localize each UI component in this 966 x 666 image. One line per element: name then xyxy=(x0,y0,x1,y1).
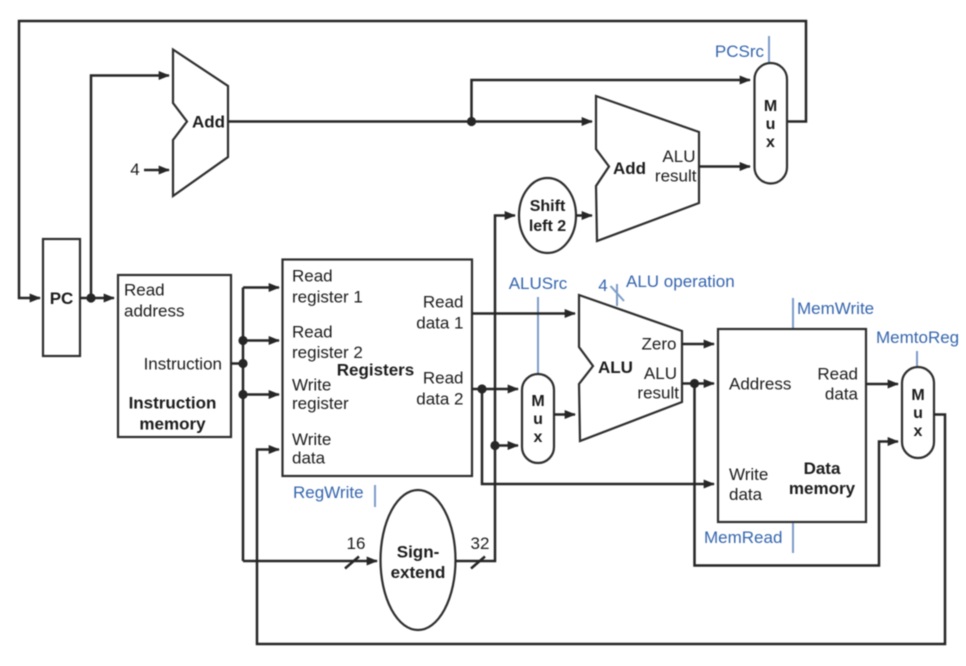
wire to Read register 2 xyxy=(243,339,279,342)
svg-text:x: x xyxy=(766,134,775,151)
svg-text:ALUSrc: ALUSrc xyxy=(509,274,568,293)
svg-text:Read: Read xyxy=(292,267,333,286)
adder Add (PC+4) xyxy=(173,50,228,197)
wire PC+4 up to top Mux input 0 xyxy=(472,80,751,122)
svg-text:register: register xyxy=(292,394,349,413)
svg-text:MemWrite: MemWrite xyxy=(797,299,874,318)
wire ALUSrc mux output to ALU xyxy=(554,413,575,416)
junction PC output xyxy=(86,293,95,302)
wire Sign-extend output up to Shift left 2 and ALU mux xyxy=(456,216,516,562)
svg-text:Instruction: Instruction xyxy=(144,355,222,374)
control ALUSrc xyxy=(509,274,568,373)
wire instruction low 16 bits to Sign-extend xyxy=(243,560,377,563)
svg-text:Address: Address xyxy=(729,375,791,394)
wire Shift left 2 to branch adder xyxy=(576,214,592,217)
svg-text:ALU operation: ALU operation xyxy=(626,272,735,291)
svg-text:Read: Read xyxy=(423,293,464,312)
svg-text:Read: Read xyxy=(292,323,333,342)
svg-text:data: data xyxy=(292,449,326,468)
wire Read data to MemtoReg mux xyxy=(866,383,898,386)
svg-text:4: 4 xyxy=(598,276,607,295)
svg-text:Add: Add xyxy=(613,159,646,178)
wire Read data 2 to ALUSrc mux xyxy=(472,388,518,391)
control MemWrite xyxy=(793,298,874,328)
svg-text:u: u xyxy=(913,405,923,422)
svg-text:Zero: Zero xyxy=(642,335,677,354)
svg-text:16: 16 xyxy=(347,534,366,553)
svg-text:Read: Read xyxy=(817,365,858,384)
svg-text:RegWrite: RegWrite xyxy=(293,483,364,502)
svg-text:extend: extend xyxy=(391,563,446,582)
svg-text:M: M xyxy=(911,387,924,404)
svg-text:u: u xyxy=(533,411,543,428)
svg-text:data: data xyxy=(729,485,763,504)
wire PC output to instruction memory xyxy=(80,297,114,300)
wire PC+4 to branch adder xyxy=(228,120,592,123)
svg-text:ALU: ALU xyxy=(598,358,633,377)
wire Zero output xyxy=(682,343,714,346)
svg-text:left 2: left 2 xyxy=(529,218,566,235)
svg-text:Write: Write xyxy=(729,465,768,484)
slash 32-bit width xyxy=(471,557,485,569)
svg-text:MemRead: MemRead xyxy=(704,528,782,547)
svg-text:Instruction: Instruction xyxy=(129,394,217,413)
svg-text:address: address xyxy=(124,302,184,321)
wire ALU result bypass down and around to MemtoReg mux xyxy=(695,384,899,566)
wire MemtoReg mux output around to Registers write data xyxy=(257,415,945,645)
wire to Write register xyxy=(243,393,279,396)
svg-text:Write: Write xyxy=(292,376,331,395)
junction ALU result xyxy=(690,379,699,388)
svg-text:Shift: Shift xyxy=(530,198,566,215)
memory Instruction memory xyxy=(118,275,231,437)
junction instruction at write register xyxy=(238,390,247,399)
svg-text:memory: memory xyxy=(139,415,206,434)
junction PC+4 xyxy=(467,117,476,126)
register PC xyxy=(43,239,80,356)
svg-text:Registers: Registers xyxy=(337,361,414,380)
junction sign-extend to ALU mux xyxy=(490,441,499,450)
svg-text:memory: memory xyxy=(789,479,856,498)
wire to Read register 1 xyxy=(243,286,279,289)
slash 16-bit width xyxy=(345,557,359,569)
svg-text:Read: Read xyxy=(124,281,165,300)
svg-text:ALU: ALU xyxy=(662,147,695,166)
junction instruction at read register 2 xyxy=(238,336,247,345)
svg-text:Read: Read xyxy=(423,369,464,388)
svg-text:4: 4 xyxy=(130,160,139,179)
control ALU operation xyxy=(598,272,734,306)
svg-text:result: result xyxy=(637,384,679,403)
svg-text:Add: Add xyxy=(192,113,225,132)
mux MemtoReg Mux xyxy=(902,367,934,458)
svg-text:data 2: data 2 xyxy=(416,390,463,409)
control MemtoReg xyxy=(876,328,959,366)
control MemRead xyxy=(704,523,793,553)
wire PC feedback top: mux output up and across to PC input xyxy=(19,21,806,298)
svg-text:u: u xyxy=(766,116,776,133)
svg-text:data: data xyxy=(825,385,859,404)
svg-text:32: 32 xyxy=(471,534,490,553)
wire constant 4 into Add xyxy=(144,169,169,172)
control RegWrite xyxy=(293,483,375,507)
memory Data memory xyxy=(718,329,866,522)
svg-text:Data: Data xyxy=(804,459,841,478)
wire Read data 2 down to Data memory write data xyxy=(482,389,714,484)
alu ALU xyxy=(579,295,682,441)
wire instruction bus fanout vertical xyxy=(231,288,243,562)
svg-text:PCSrc: PCSrc xyxy=(715,42,765,61)
wire sign-extend branch into ALUSrc mux input 1 xyxy=(495,444,518,447)
junction instruction output xyxy=(238,359,247,368)
svg-text:ALU: ALU xyxy=(644,364,677,383)
svg-text:Write: Write xyxy=(292,430,331,449)
wire branch target to top Mux input 1 xyxy=(699,165,750,168)
shifter Shift left 2 xyxy=(519,178,576,253)
sign extender Sign-extend xyxy=(381,490,456,630)
wire Read data 1 to ALU xyxy=(472,312,575,315)
junction Read data 2 xyxy=(477,384,486,393)
register file Registers xyxy=(283,260,473,477)
control PCSrc xyxy=(715,36,769,62)
mux PCSrc Mux xyxy=(755,63,788,184)
svg-text:M: M xyxy=(764,98,777,115)
svg-text:register 1: register 1 xyxy=(292,288,363,307)
svg-text:result: result xyxy=(655,167,697,186)
svg-text:x: x xyxy=(534,429,543,446)
svg-text:MemtoReg: MemtoReg xyxy=(876,328,959,347)
svg-text:Sign-: Sign- xyxy=(397,543,440,562)
mux ALUSrc Mux xyxy=(522,374,554,463)
svg-text:register 2: register 2 xyxy=(292,343,363,362)
svg-text:M: M xyxy=(531,393,544,410)
wire PC value up to Add xyxy=(91,76,169,299)
svg-text:x: x xyxy=(914,423,923,440)
svg-text:data 1: data 1 xyxy=(416,314,463,333)
svg-text:PC: PC xyxy=(50,289,74,308)
wire ALU result to Data memory address xyxy=(682,382,714,385)
adder Add (branch target) xyxy=(596,96,699,241)
